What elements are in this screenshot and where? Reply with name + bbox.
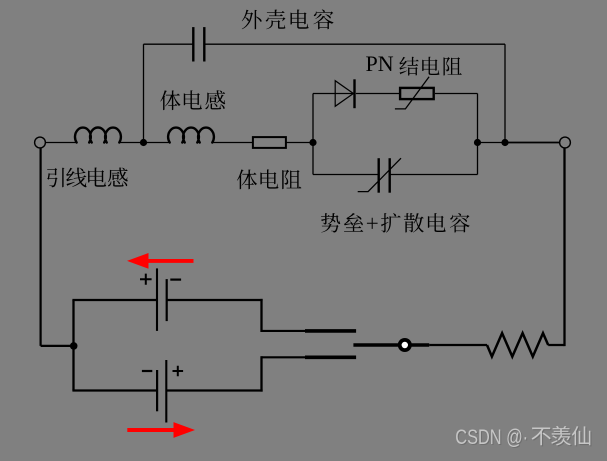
resistor: body resistance (体电阻) R1: [253, 137, 286, 148]
wire: upper tap thin lead: [262, 330, 306, 332]
wire: right corner down to node D: [504, 44, 506, 142]
wire: right terminal down to R3: [563, 148, 565, 346]
wire: center plate to resistor R3: [429, 344, 487, 346]
inductor: body inductance (体电感) L2: [168, 128, 214, 143]
wire: to battery box left edge: [41, 345, 74, 347]
label: 外壳电容 (case capacitance): [242, 10, 262, 30]
wire: diode to variable resistor: [356, 93, 401, 95]
wire: L1 to node A: [120, 142, 169, 144]
label: 势垒+扩散电容 (barrier + diffusion capacitance): [321, 213, 340, 232]
electrode: upper probe plate (thick): [305, 329, 356, 333]
wire: node C to node D: [478, 142, 506, 144]
wire: bottom edge right of B2: [166, 389, 262, 391]
wire: bottom branch right segment: [390, 174, 478, 176]
wire: box right edge lower part: [260, 356, 262, 391]
wire: box right edge upper part: [260, 299, 262, 332]
label: 体电感 (body inductance): [160, 90, 180, 110]
electrode: center probe plate (thick, device under test): [353, 343, 429, 347]
wire: R3 to right vertical: [548, 344, 564, 346]
inductor: lead inductance (引线电感) L1: [75, 128, 121, 143]
label: 体电阻 (body resistance): [237, 170, 257, 190]
node C: right junction of parallel network: [474, 139, 481, 146]
wire: top branch left segment: [313, 93, 355, 95]
battery B2 (bottom source): [156, 370, 158, 411]
label: B1 plus sign: [140, 274, 152, 285]
wire: R_body to node B: [286, 142, 313, 144]
node A: junction of L1, L2 and case-capacitance branch: [140, 139, 147, 146]
wire: right vertical of parallel network: [477, 94, 479, 175]
node F: white-centered node on center plate: [398, 338, 412, 352]
terminal: right lead (output): [560, 137, 571, 148]
wire: battery box bottom edge left of B2: [72, 389, 157, 391]
svg-text:CSDN @·: CSDN @·: [455, 426, 528, 450]
wire: left terminal down: [39, 148, 41, 346]
svg-text:PN: PN: [366, 51, 394, 76]
label: 引线电感 (lead inductance): [47, 168, 64, 188]
wire: lower tap thin lead: [262, 356, 306, 358]
wire: left vertical of parallel network: [312, 94, 314, 175]
label: B1 minus sign: [170, 279, 181, 281]
terminal: left lead (input): [35, 137, 46, 148]
arrow: current direction (bottom, pointing right): [127, 428, 176, 432]
diode D1 (PN junction): [335, 81, 353, 107]
wire: L2 to R_body: [213, 142, 253, 144]
wire: battery box left edge: [72, 300, 74, 391]
node B: left junction of PN-junction parallel network: [309, 139, 316, 146]
wire: left terminal to L1: [45, 142, 75, 144]
wire: top edge left of battery B1: [72, 299, 157, 301]
wire: top branch to capacitor C1: [144, 43, 194, 45]
wire: node A up to case-capacitance branch: [143, 44, 145, 142]
battery B1 (top source): [156, 268, 158, 331]
label: B2 minus sign: [142, 370, 152, 372]
node E: junction on battery box left edge: [70, 342, 78, 350]
variable capacitor: barrier+diffusion capacitance (势垒+扩散电容) C2: [378, 158, 380, 193]
label: B2 plus sign: [173, 366, 184, 377]
wire: variable resistor to right vertical: [435, 93, 478, 95]
wire: bottom branch left segment: [313, 174, 379, 176]
wire: capacitor C1 to right corner: [204, 43, 505, 45]
node D: junction with case-capacitance branch: [501, 139, 508, 146]
arrow: current direction (top, pointing left): [146, 259, 194, 263]
resistor R3 (load, zigzag): [487, 333, 548, 357]
variable resistor: PN junction resistance (PN结电阻) R2: [400, 88, 434, 99]
capacitor: case capacitance (外壳电容) C1: [192, 27, 194, 61]
electrode: lower probe plate (thick): [305, 355, 356, 359]
wire: node D to right terminal: [505, 142, 560, 144]
wire: top edge right of battery B1: [167, 299, 263, 301]
